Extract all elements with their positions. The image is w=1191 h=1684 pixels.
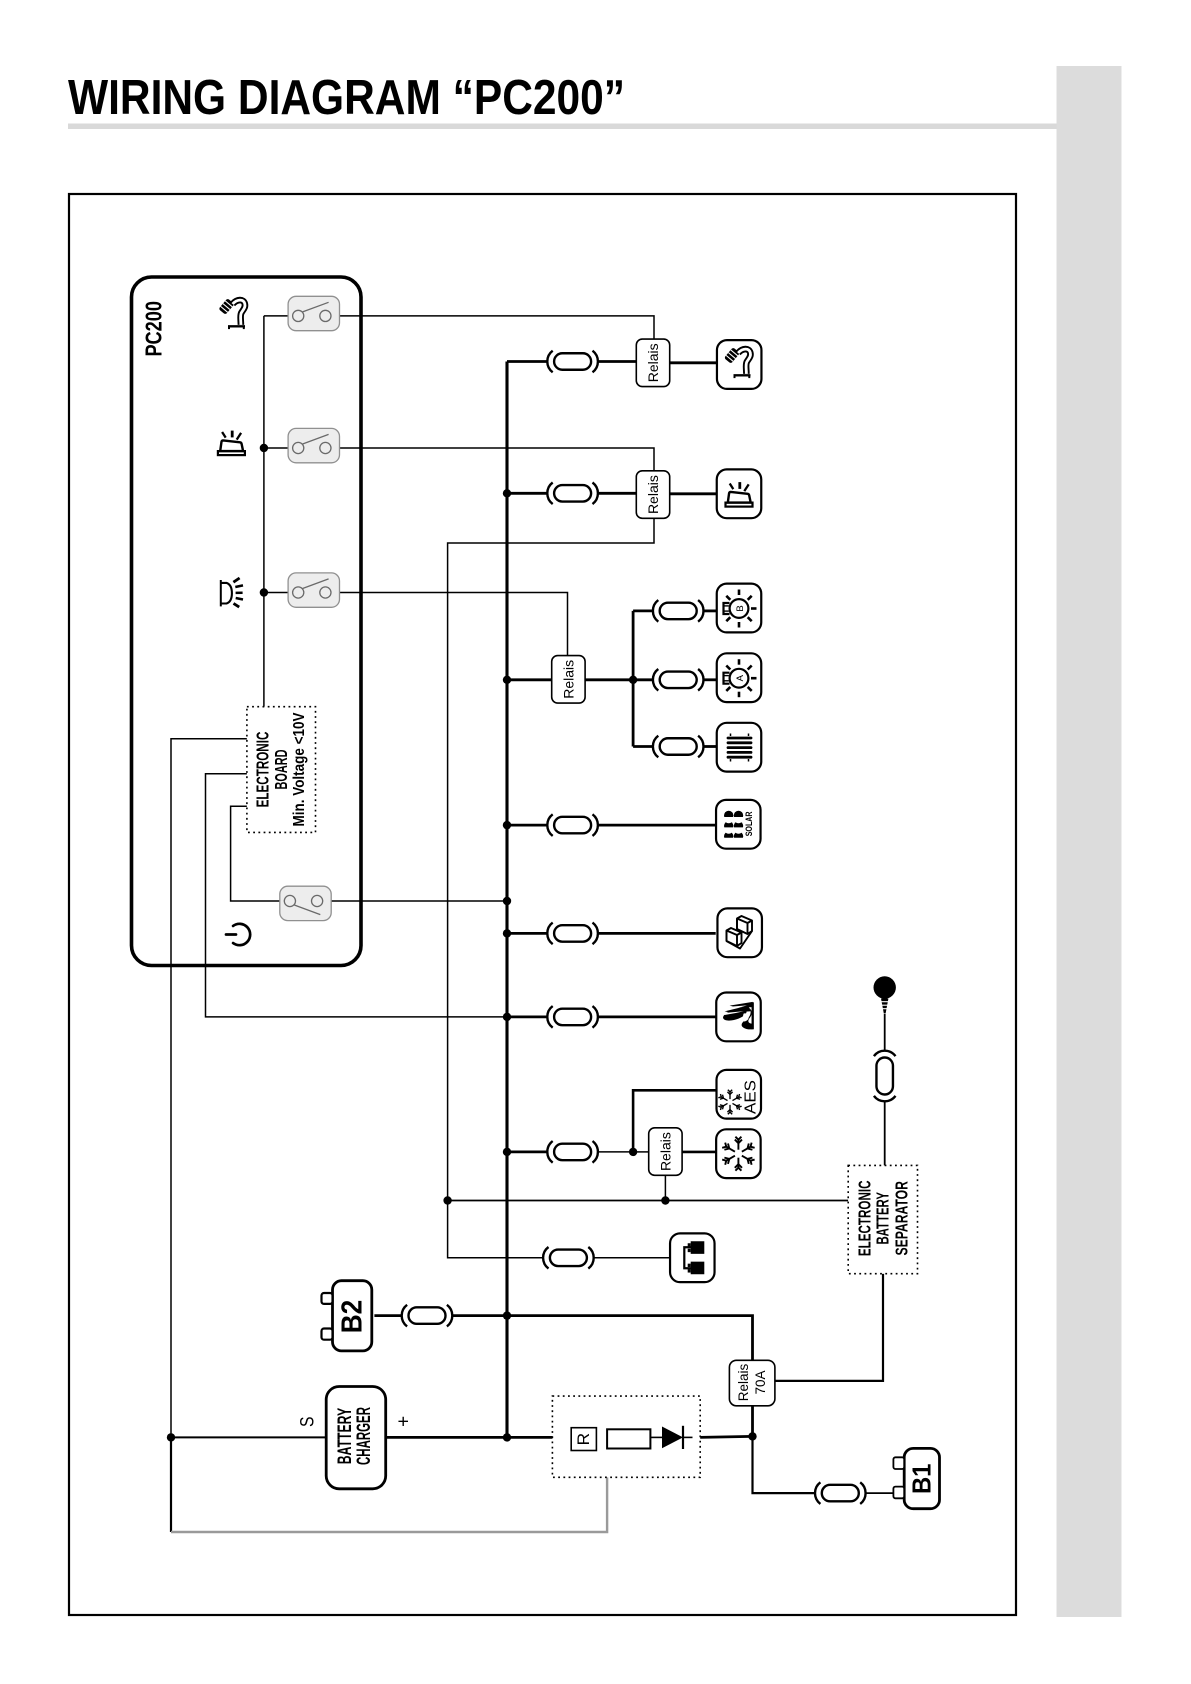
svg-text:A: A: [735, 674, 746, 681]
svg-text:R: R: [575, 1433, 593, 1446]
junction at charger S node: [167, 1433, 175, 1441]
wire: relay 70A lower pin down: [751, 1406, 754, 1436]
wire: charger S input from electronic board: [171, 739, 247, 1438]
load icon 2: beacon: [717, 469, 762, 518]
wire: sense loop from S node to R-diode module (gray): [170, 1437, 172, 1532]
connector X4 lamp A: [653, 669, 704, 691]
icon: shower switch glyph (in PC200): [218, 298, 245, 329]
icon: beacon glyph (in PC200): [218, 431, 245, 456]
switch S3 (horn): [288, 573, 339, 607]
relay K4: [649, 1128, 682, 1176]
PC200 control panel box: [132, 277, 362, 966]
wire: branch node to relay K4: [633, 1151, 649, 1153]
svg-text:B2: B2: [337, 1300, 369, 1334]
load icon: heating flame: [716, 993, 761, 1042]
wire: connector X1 to relay K1: [598, 360, 636, 363]
load icon: twin batteries: [670, 1233, 715, 1282]
wire: B2 row to relay 70A: [507, 1316, 753, 1361]
battery B1: [893, 1448, 939, 1508]
junction on feed bus at S2: [260, 444, 268, 452]
switch S1 (shower): [288, 296, 339, 330]
wire: lamp B connector to lamp B: [704, 610, 717, 613]
wire: charger + output to bus end: [387, 1436, 507, 1439]
svg-text:70A: 70A: [753, 1370, 768, 1394]
resistor R (labelled box): [571, 1428, 596, 1451]
switch S4 (master power): [280, 886, 331, 920]
junction K4 drop on separator line: [661, 1196, 669, 1204]
junction bus row 3: [503, 676, 511, 684]
svg-text:ELECTRONIC: ELECTRONIC: [854, 1181, 874, 1257]
wire: switch S3 to feed bus: [264, 592, 288, 594]
svg-text:B1: B1: [907, 1464, 937, 1495]
title underline rule: [68, 124, 1057, 130]
icon: power symbol (in PC200): [226, 924, 250, 945]
wire: bus end to R-diode module: [507, 1436, 553, 1439]
wire: S node to battery charger: [171, 1436, 328, 1438]
wire: relay K1 to load icon 1: [670, 361, 718, 364]
svg-text:BATTERY: BATTERY: [872, 1192, 892, 1245]
wire: lamp branch vertical: [632, 611, 635, 747]
junction lamp branch at row A: [629, 676, 637, 684]
wire: relay K2 to load icon 2: [670, 492, 717, 495]
wire: relay K3 to lamp branch node: [585, 678, 633, 681]
wire: relay K4 lower pin to separator line: [664, 1175, 666, 1201]
svg-text:WIRING DIAGRAM “PC200”: WIRING DIAGRAM “PC200”: [68, 70, 625, 125]
wire: fridge connector to branch node: [598, 1151, 633, 1153]
junction bus bottom at charger: [503, 1433, 511, 1441]
electronic board (dotted box): [247, 707, 316, 833]
wire: power switch S4 to bus: [331, 900, 507, 902]
load icon: lamp A: [717, 653, 762, 702]
svg-text:BOARD: BOARD: [271, 750, 291, 790]
wire: lamp A connector to lamp A: [704, 678, 717, 681]
connector X6 solar: [547, 814, 598, 836]
svg-text:AES: AES: [742, 1080, 759, 1114]
wire: B2 connector to bus: [453, 1314, 507, 1317]
wire: switch S1 output to relay K1: [340, 316, 655, 339]
load icon: lamp B: [717, 584, 762, 633]
connector X9 fridge: [547, 1141, 598, 1163]
wire: node down to B1 connector: [753, 1436, 816, 1493]
junction bus fridge row: [503, 1148, 511, 1156]
junction on feed bus at S3: [260, 588, 268, 596]
connector X10 aux battery branch: [543, 1247, 594, 1269]
D+ sense pin symbol (ball screw): [874, 976, 896, 1013]
wire: branch node up to AES icon: [633, 1090, 716, 1152]
connector X5 heater: [653, 736, 704, 758]
junction bus at power-switch return: [503, 897, 511, 905]
junction bus step row: [503, 929, 511, 937]
connector X12 battery B1: [815, 1482, 866, 1504]
svg-text:ELECTRONIC: ELECTRONIC: [253, 732, 273, 808]
wire: board output to power switch S4: [231, 806, 281, 901]
wire: B1 connector to battery B1: [866, 1492, 893, 1494]
relay K2: [636, 471, 669, 518]
wire: relay 70A to separator: [775, 1274, 883, 1381]
electronic battery separator (dotted box): [848, 1165, 917, 1273]
wire: board output to bus (flame row): [206, 774, 508, 1017]
junction bus row 2: [503, 489, 511, 497]
junction fridge branch node: [629, 1148, 637, 1156]
diode D1: [650, 1426, 692, 1449]
battery B2: [322, 1281, 372, 1351]
svg-text:Relais: Relais: [736, 1363, 751, 1401]
wire: relay K2 lower pin down-left-down to aux connector row: [448, 518, 654, 1258]
wire: aux connector to twin battery icon: [594, 1257, 670, 1259]
R-diode module (dotted box): [552, 1396, 700, 1477]
wire: bus to step connector: [507, 932, 547, 935]
wire: bus to solar connector: [507, 824, 547, 827]
svg-text:Min. Voltage <10V: Min. Voltage <10V: [291, 712, 308, 827]
wire: heater connector to heater: [704, 745, 717, 748]
wire: battery B2 to its connector: [374, 1314, 402, 1317]
wire: separator top to connector: [884, 1014, 886, 1165]
svg-text:S: S: [298, 1417, 319, 1428]
load icon: heater radiator: [717, 723, 762, 772]
wire: branch to heater connector: [633, 745, 653, 748]
icon: horn glyph (in PC200): [221, 578, 243, 607]
wire: row 1 bus corner to connector X1: [507, 360, 547, 363]
switch S2 (beacon): [288, 428, 339, 462]
right margin gray bar: [1057, 66, 1122, 1617]
connector X13 separator sense (vertical): [874, 1051, 896, 1102]
wire: bus to flame connector: [507, 1016, 547, 1019]
wire: switch feed bus inside PC200: [263, 316, 265, 707]
wire: switch S2 output to relay K2: [340, 448, 655, 471]
relay 70A box: [729, 1360, 775, 1406]
wire: relay K4 to freezer icon: [682, 1151, 716, 1154]
battery charger box: [326, 1387, 386, 1489]
svg-text:+: +: [394, 1416, 415, 1427]
junction bus flame row: [503, 1013, 511, 1021]
load icon: AES fridge: [717, 1070, 762, 1119]
diagram outer frame: [69, 194, 1016, 1615]
svg-text:PC200: PC200: [141, 301, 167, 357]
load icon: freezer snowflake: [716, 1129, 761, 1178]
junction under relay 70A: [748, 1432, 756, 1440]
connector X8 heating: [547, 1006, 598, 1028]
svg-text:BATTERY: BATTERY: [335, 1408, 356, 1465]
connector X2: [547, 483, 598, 505]
load icon: entry step: [717, 908, 762, 957]
wire: connector X2 to relay K2: [598, 492, 636, 495]
junction bus at B2 row: [503, 1311, 511, 1319]
wire: bus to relay K3: [507, 678, 552, 681]
svg-text:B: B: [735, 605, 746, 611]
svg-text:CHARGER: CHARGER: [354, 1407, 375, 1465]
junction K2 drop crosses separator line: [443, 1196, 451, 1204]
connector X7 step: [547, 923, 598, 945]
wire: step connector to step icon: [598, 932, 716, 935]
wire: main supply bus (vertical): [505, 362, 508, 1438]
wire: bus to fridge connector: [507, 1151, 547, 1154]
svg-text:SEPARATOR: SEPARATOR: [891, 1181, 911, 1256]
wire: switch S3 output to relay K3: [340, 593, 568, 656]
wire: flame connector to heating icon: [598, 1016, 716, 1019]
connector X3 lamp B: [653, 600, 704, 622]
load icon: solar panel: [716, 800, 761, 849]
connector X11 battery B2: [402, 1305, 453, 1327]
wire: R-diode module to relay 70A node: [700, 1436, 753, 1437]
resistor element (rectangle): [607, 1429, 650, 1448]
wire: solar connector to solar panel icon: [598, 824, 715, 827]
junction bus solar row: [503, 821, 511, 829]
wire: bus to connector X2: [507, 492, 547, 495]
load icon 1: shower: [717, 340, 762, 389]
connector X1: [547, 351, 598, 373]
wire: switch S1 to feed bus: [264, 315, 288, 317]
wire: branch to lamp A connector: [633, 678, 653, 681]
relay K1: [636, 339, 669, 387]
wire: long line to electronic battery separator: [448, 1200, 849, 1202]
wire: branch to lamp B connector: [633, 610, 653, 613]
svg-text:SOLAR: SOLAR: [744, 811, 754, 836]
relay K3: [552, 656, 585, 704]
wire: switch S2 to feed bus: [264, 447, 288, 449]
